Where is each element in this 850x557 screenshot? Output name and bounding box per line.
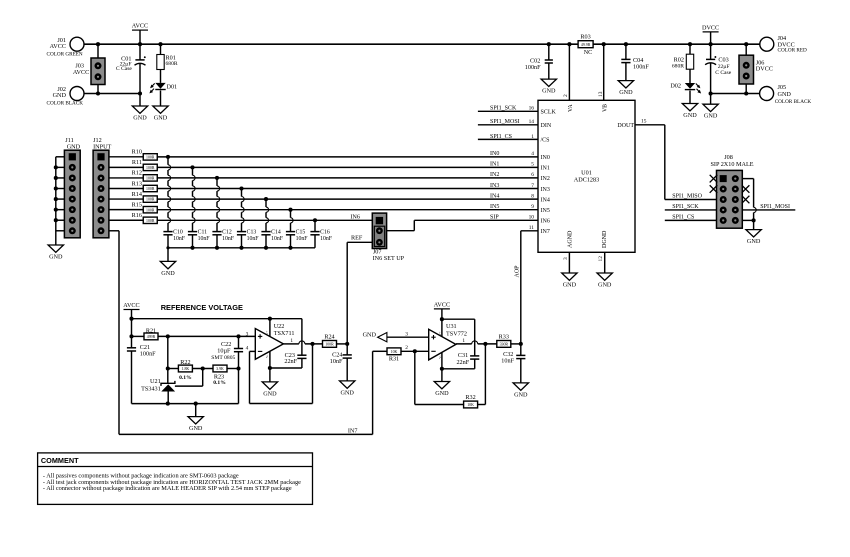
svg-text:4: 4: [246, 345, 249, 351]
svg-text:680R: 680R: [672, 64, 684, 70]
svg-text:GND: GND: [263, 390, 277, 397]
svg-text:49.9R: 49.9R: [581, 43, 591, 47]
svg-text:GND: GND: [598, 281, 612, 288]
svg-text:GND: GND: [363, 332, 377, 339]
svg-text:100R: 100R: [146, 177, 155, 181]
svg-text:IN7: IN7: [541, 229, 550, 235]
svg-text:SPI1_SCK: SPI1_SCK: [672, 204, 699, 210]
svg-text:IN4: IN4: [541, 197, 550, 203]
svg-text:SPI1_MISO: SPI1_MISO: [672, 194, 702, 200]
svg-text:C12: C12: [222, 229, 232, 235]
svg-text:100R: 100R: [146, 219, 155, 223]
svg-text:3: 3: [246, 331, 249, 337]
svg-text:2: 2: [405, 345, 408, 351]
svg-text:C16: C16: [320, 229, 330, 235]
svg-text:22nF: 22nF: [456, 359, 469, 366]
svg-text:AVCC: AVCC: [123, 302, 139, 309]
svg-text:IN3: IN3: [541, 187, 550, 193]
svg-text:GND: GND: [133, 114, 147, 121]
svg-text:10nF: 10nF: [320, 236, 333, 242]
svg-text:U31: U31: [446, 323, 457, 330]
svg-text:330R: 330R: [500, 343, 509, 347]
svg-text:COLOR GREEN: COLOR GREEN: [47, 52, 83, 58]
svg-text:GND: GND: [704, 113, 718, 120]
svg-text:R31: R31: [389, 355, 399, 362]
svg-text:J05: J05: [778, 84, 787, 91]
svg-text:R33: R33: [499, 334, 509, 341]
svg-text:10nF: 10nF: [330, 358, 343, 365]
svg-text:GND: GND: [340, 389, 354, 396]
svg-text:AVCC: AVCC: [132, 23, 148, 30]
svg-text:C13: C13: [247, 229, 257, 235]
svg-text:C11: C11: [198, 229, 208, 235]
svg-text:VA: VA: [568, 104, 574, 112]
svg-text:/CS: /CS: [541, 138, 550, 144]
svg-text:DVCC: DVCC: [702, 24, 719, 31]
svg-text:U21: U21: [150, 378, 161, 385]
svg-text:10nF: 10nF: [173, 236, 186, 242]
svg-text:V-: V-: [265, 355, 269, 358]
svg-text:3: 3: [405, 331, 408, 337]
svg-text:0.1%: 0.1%: [213, 380, 226, 386]
svg-text:C03: C03: [718, 57, 728, 64]
svg-text:IN1: IN1: [541, 166, 550, 172]
svg-text:10nF: 10nF: [222, 236, 235, 242]
svg-text:GND: GND: [683, 112, 697, 119]
svg-text:TS3431: TS3431: [141, 385, 161, 392]
svg-text:10nF: 10nF: [247, 236, 260, 242]
svg-text:SIP 2X10 MALE: SIP 2X10 MALE: [710, 161, 753, 168]
svg-text:R12: R12: [132, 170, 142, 177]
svg-text:- All connector without packag: - All connector without package indicati…: [43, 485, 292, 492]
svg-text:COMMENT: COMMENT: [41, 456, 79, 465]
svg-text:ADC1283: ADC1283: [574, 176, 599, 183]
svg-text:100R: 100R: [146, 198, 155, 202]
svg-text:AVCC: AVCC: [50, 43, 66, 50]
svg-text:100R: 100R: [325, 343, 334, 347]
svg-text:IN5: IN5: [541, 208, 550, 214]
svg-text:C15: C15: [296, 229, 306, 235]
svg-text:100R: 100R: [146, 187, 155, 191]
svg-text:IN6: IN6: [541, 219, 550, 225]
svg-text:100nF: 100nF: [633, 63, 649, 70]
svg-text:COLOR BLACK: COLOR BLACK: [775, 99, 812, 105]
svg-text:10µF: 10µF: [217, 347, 231, 354]
svg-text:10nF: 10nF: [198, 236, 211, 242]
svg-text:R22: R22: [180, 359, 190, 366]
svg-text:GND: GND: [161, 270, 175, 277]
svg-text:10K: 10K: [391, 350, 398, 354]
svg-text:GND: GND: [563, 281, 577, 288]
svg-text:680R: 680R: [166, 61, 178, 67]
svg-text:100R: 100R: [146, 166, 155, 170]
svg-text:COLOR BLACK: COLOR BLACK: [47, 100, 84, 106]
svg-text:REFERENCE VOLTAGE: REFERENCE VOLTAGE: [161, 303, 243, 312]
svg-text:22nF: 22nF: [284, 358, 297, 365]
svg-text:IN6: IN6: [350, 214, 360, 221]
svg-text:D02: D02: [670, 83, 681, 90]
svg-text:3.9K: 3.9K: [216, 367, 224, 371]
svg-text:GND: GND: [435, 390, 449, 397]
svg-text:GND: GND: [189, 425, 203, 432]
svg-text:GND: GND: [514, 391, 528, 398]
svg-text:SPI1_CS: SPI1_CS: [672, 215, 694, 221]
svg-text:U22: U22: [274, 323, 285, 330]
svg-text:SPI1_MOSI: SPI1_MOSI: [490, 119, 520, 125]
svg-text:GND: GND: [619, 89, 633, 96]
svg-text:C Case: C Case: [715, 70, 732, 76]
svg-text:2: 2: [563, 94, 569, 97]
svg-text:C31: C31: [458, 352, 468, 359]
svg-text:NC: NC: [584, 49, 593, 56]
svg-text:SCLK: SCLK: [541, 110, 557, 116]
svg-text:C14: C14: [271, 229, 281, 235]
svg-text:V+: V+: [265, 331, 269, 335]
svg-text:R32: R32: [465, 394, 475, 401]
svg-text:IN7: IN7: [348, 427, 358, 434]
svg-text:100nF: 100nF: [525, 64, 541, 71]
svg-text:22µF: 22µF: [718, 64, 730, 70]
svg-text:GND: GND: [778, 91, 792, 98]
svg-text:R13: R13: [132, 180, 142, 187]
svg-text:13: 13: [598, 91, 604, 97]
svg-text:J08: J08: [724, 154, 733, 161]
svg-text:GND: GND: [747, 238, 761, 245]
svg-text:R16: R16: [132, 212, 142, 219]
svg-text:100R: 100R: [146, 208, 155, 212]
svg-text:SPI1_CS: SPI1_CS: [490, 134, 512, 140]
svg-text:GND: GND: [49, 253, 63, 260]
svg-text:15: 15: [641, 118, 647, 124]
svg-text:100R: 100R: [146, 156, 155, 160]
svg-text:R24: R24: [324, 333, 334, 340]
svg-text:3: 3: [563, 257, 569, 260]
svg-text:GND: GND: [154, 114, 168, 121]
svg-text:AGND: AGND: [568, 230, 574, 248]
svg-text:R11: R11: [132, 159, 142, 166]
svg-text:AVCC: AVCC: [434, 301, 450, 308]
svg-text:GND: GND: [542, 88, 556, 95]
svg-text:AOP: AOP: [515, 265, 521, 278]
svg-text:100nF: 100nF: [140, 351, 156, 358]
svg-text:SPI1_MOSI: SPI1_MOSI: [760, 204, 790, 210]
svg-text:IN2: IN2: [541, 176, 550, 182]
svg-text:AVCC: AVCC: [73, 69, 89, 76]
svg-text:10nF: 10nF: [271, 236, 284, 242]
svg-text:VB: VB: [603, 104, 609, 112]
svg-text:COLOR RED: COLOR RED: [778, 48, 808, 54]
svg-text:R02: R02: [674, 57, 684, 64]
svg-text:10nF: 10nF: [501, 358, 514, 365]
svg-text:0.1%: 0.1%: [179, 375, 192, 381]
svg-text:10K: 10K: [467, 403, 474, 407]
svg-text:499R: 499R: [147, 335, 156, 339]
svg-text:R10: R10: [132, 149, 142, 156]
svg-text:IN6 SET UP: IN6 SET UP: [373, 255, 405, 262]
svg-text:1: 1: [290, 338, 293, 344]
svg-text:R14: R14: [132, 191, 142, 198]
svg-text:C10: C10: [173, 229, 183, 235]
svg-text:DOUT: DOUT: [617, 123, 634, 129]
svg-text:TSV772: TSV772: [446, 331, 467, 338]
svg-text:D01: D01: [167, 83, 178, 90]
svg-text:R03: R03: [580, 34, 590, 41]
svg-text:R21: R21: [146, 327, 156, 334]
svg-text:IN0: IN0: [541, 155, 550, 161]
svg-text:1: 1: [531, 134, 534, 140]
svg-text:GND: GND: [53, 92, 67, 99]
svg-text:16: 16: [529, 106, 535, 112]
svg-text:12: 12: [598, 256, 604, 262]
svg-text:1: 1: [462, 338, 465, 344]
svg-text:DVCC: DVCC: [756, 66, 773, 73]
svg-text:SMT 0805: SMT 0805: [211, 355, 235, 361]
svg-text:1.8K: 1.8K: [182, 367, 190, 371]
svg-text:C Case: C Case: [116, 66, 133, 72]
svg-text:DGND: DGND: [602, 230, 608, 248]
svg-text:10nF: 10nF: [296, 236, 309, 242]
svg-text:SPI1_SCK: SPI1_SCK: [490, 106, 517, 112]
svg-text:R15: R15: [132, 202, 142, 209]
svg-text:DIN: DIN: [541, 123, 552, 129]
svg-text:TSX711: TSX711: [274, 330, 295, 337]
svg-text:REF: REF: [351, 235, 363, 242]
svg-text:14: 14: [529, 119, 535, 125]
